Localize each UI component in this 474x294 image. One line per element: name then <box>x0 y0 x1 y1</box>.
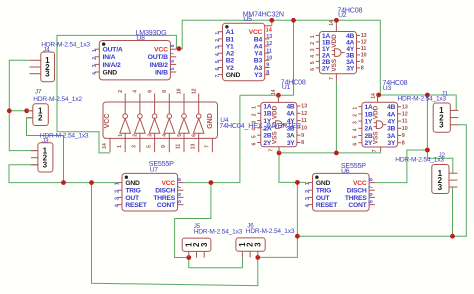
svg-text:6: 6 <box>251 142 257 145</box>
svg-text:1: 1 <box>251 106 257 109</box>
svg-text:9: 9 <box>266 63 269 69</box>
svg-text:13: 13 <box>301 104 307 110</box>
IC U1 74HC08 <box>251 78 307 152</box>
junction <box>334 18 339 23</box>
svg-text:U1: U1 <box>282 84 291 91</box>
svg-text:4B: 4B <box>387 104 395 111</box>
svg-text:6: 6 <box>192 134 198 137</box>
svg-text:13: 13 <box>266 34 272 40</box>
connector J1 <box>398 90 459 132</box>
IC U2 74HC08 <box>310 6 367 81</box>
svg-text:11: 11 <box>301 118 307 124</box>
svg-text:HDR-M-2.54_1x2: HDR-M-2.54_1x2 <box>33 96 82 103</box>
wire <box>9 165 117 183</box>
junction <box>269 18 274 23</box>
svg-text:U6: U6 <box>341 168 350 175</box>
svg-text:4: 4 <box>310 55 316 58</box>
junction <box>376 93 381 98</box>
svg-text:4: 4 <box>133 90 139 93</box>
wire <box>335 20 337 24</box>
svg-text:2: 2 <box>92 57 98 60</box>
svg-text:11: 11 <box>361 46 367 52</box>
svg-text:THRES: THRES <box>345 195 367 202</box>
svg-text:IN/A/2: IN/A/2 <box>103 62 121 69</box>
svg-text:8: 8 <box>361 66 364 72</box>
junction <box>7 108 12 113</box>
svg-text:3Y: 3Y <box>287 140 295 147</box>
svg-text:VCC: VCC <box>161 180 175 187</box>
svg-text:VCC: VCC <box>249 29 263 36</box>
svg-text:5: 5 <box>353 135 359 138</box>
svg-text:2: 2 <box>353 114 359 117</box>
svg-text:3: 3 <box>147 134 153 137</box>
svg-text:OUT: OUT <box>125 195 140 202</box>
wire <box>240 94 294 96</box>
svg-text:1: 1 <box>117 145 123 148</box>
svg-text:VSS: VSS <box>331 58 338 72</box>
svg-text:1: 1 <box>92 49 98 52</box>
wire <box>57 35 176 152</box>
svg-text:8: 8 <box>266 70 269 76</box>
svg-text:8: 8 <box>402 140 405 146</box>
wire <box>271 20 273 26</box>
svg-text:5: 5 <box>177 134 183 137</box>
svg-text:OUT/B: OUT/B <box>148 54 168 61</box>
junction <box>209 180 214 185</box>
svg-text:13: 13 <box>361 33 367 39</box>
svg-text:6: 6 <box>170 60 176 63</box>
svg-text:9: 9 <box>402 133 405 139</box>
svg-text:J3: J3 <box>42 138 49 145</box>
svg-text:U8: U8 <box>136 35 145 42</box>
wire <box>258 182 298 257</box>
svg-text:A2: A2 <box>226 51 235 58</box>
svg-text:IN/B: IN/B <box>155 69 168 76</box>
U5 pin 14 VCC <box>249 26 273 36</box>
svg-text:1: 1 <box>215 32 221 35</box>
svg-text:10: 10 <box>266 56 272 62</box>
svg-text:TRIG: TRIG <box>316 188 331 195</box>
svg-text:HDR-M-2.54_1x3: HDR-M-2.54_1x3 <box>194 228 243 235</box>
svg-text:B4: B4 <box>254 36 263 43</box>
wire <box>175 183 211 258</box>
svg-text:Y2: Y2 <box>226 65 234 72</box>
IC U4 74HC04 hex inverter <box>102 88 301 152</box>
junction <box>89 180 94 185</box>
timer U7 SE555P <box>115 160 184 211</box>
svg-text:7: 7 <box>205 145 211 148</box>
svg-text:GND: GND <box>226 72 241 79</box>
svg-text:HDR-M-2.54_1x3: HDR-M-2.54_1x3 <box>246 228 295 235</box>
wire <box>176 20 380 95</box>
svg-text:74HC04_HEX_INVERTER: 74HC04_HEX_INVERTER <box>219 121 301 130</box>
svg-text:2: 2 <box>118 90 124 93</box>
svg-text:2: 2 <box>38 114 43 123</box>
svg-text:CONT: CONT <box>157 202 176 209</box>
svg-text:8: 8 <box>170 44 176 47</box>
svg-text:5: 5 <box>215 60 221 63</box>
wire <box>189 258 243 268</box>
svg-text:GND: GND <box>207 113 214 129</box>
svg-text:3A: 3A <box>286 133 294 140</box>
svg-text:13: 13 <box>190 144 196 150</box>
svg-text:10: 10 <box>402 126 408 132</box>
svg-text:4: 4 <box>215 53 221 56</box>
connector J6 <box>236 222 295 257</box>
svg-text:B1: B1 <box>226 36 235 43</box>
svg-text:4A: 4A <box>286 111 294 118</box>
svg-text:3: 3 <box>253 242 262 247</box>
svg-text:TRIG: TRIG <box>125 188 140 195</box>
svg-text:8: 8 <box>301 140 304 146</box>
connector J4 <box>30 41 91 81</box>
svg-text:14: 14 <box>266 27 273 33</box>
IC IC U5 MM74HC32N <box>215 11 284 81</box>
svg-text:3: 3 <box>132 145 138 148</box>
junction <box>425 93 430 98</box>
svg-text:12: 12 <box>361 40 367 46</box>
svg-text:9: 9 <box>361 59 364 65</box>
svg-text:4: 4 <box>92 72 98 75</box>
svg-text:7: 7 <box>269 149 275 152</box>
svg-text:2Y: 2Y <box>322 65 330 72</box>
junction <box>24 108 29 113</box>
svg-text:1: 1 <box>310 35 316 38</box>
svg-text:Y3: Y3 <box>254 72 262 79</box>
svg-text:GND: GND <box>125 180 140 187</box>
svg-text:3A: 3A <box>387 133 395 140</box>
svg-text:DISCH: DISCH <box>347 188 367 195</box>
svg-text:11: 11 <box>176 144 182 150</box>
svg-text:OUT: OUT <box>316 195 331 202</box>
timer U6 SE555P <box>305 162 375 211</box>
svg-text:3: 3 <box>353 121 359 124</box>
svg-text:7: 7 <box>372 149 378 152</box>
svg-text:HDR-M-2.54_1x3: HDR-M-2.54_1x3 <box>395 157 444 164</box>
svg-text:VCC: VCC <box>154 47 168 54</box>
svg-text:RESET: RESET <box>316 202 338 209</box>
svg-text:HDR-M-2.54_1x3: HDR-M-2.54_1x3 <box>398 95 447 102</box>
svg-text:2: 2 <box>215 39 221 42</box>
wire <box>427 150 452 173</box>
svg-text:14: 14 <box>271 89 277 95</box>
connector J2 <box>395 152 457 194</box>
svg-text:VDD: VDD <box>331 34 338 48</box>
svg-text:VSS: VSS <box>373 131 380 145</box>
svg-text:IN/A: IN/A <box>103 54 116 61</box>
svg-text:DISCH: DISCH <box>155 188 175 195</box>
svg-text:3: 3 <box>438 183 443 192</box>
svg-text:10: 10 <box>301 126 307 132</box>
svg-text:1: 1 <box>118 134 124 137</box>
wire <box>426 95 428 150</box>
svg-text:RESET: RESET <box>125 202 147 209</box>
svg-text:J7: J7 <box>35 89 42 96</box>
svg-text:VSS: VSS <box>272 131 279 145</box>
svg-text:2: 2 <box>310 42 316 45</box>
svg-text:3: 3 <box>310 48 316 51</box>
junction <box>186 255 191 260</box>
wire <box>297 125 466 236</box>
junction <box>276 93 281 98</box>
svg-text:3: 3 <box>92 64 98 67</box>
svg-text:14: 14 <box>102 143 108 149</box>
svg-text:Y4: Y4 <box>254 51 262 58</box>
svg-text:1B: 1B <box>263 111 271 118</box>
svg-text:6: 6 <box>215 67 221 70</box>
svg-text:OUT/A: OUT/A <box>103 47 123 54</box>
junction <box>277 151 282 156</box>
junction <box>295 234 300 239</box>
svg-text:14: 14 <box>371 93 377 99</box>
svg-text:2: 2 <box>305 190 311 193</box>
svg-text:2B: 2B <box>263 133 271 140</box>
svg-text:4Y: 4Y <box>388 119 396 126</box>
svg-text:A3: A3 <box>254 65 263 72</box>
wire <box>375 150 428 183</box>
svg-text:GND: GND <box>316 180 331 187</box>
wire <box>9 110 33 112</box>
svg-text:6: 6 <box>353 143 359 146</box>
wire <box>293 20 295 95</box>
svg-text:VCC: VCC <box>353 180 367 187</box>
connector J7 <box>27 89 82 126</box>
svg-text:7: 7 <box>329 77 335 80</box>
svg-text:2: 2 <box>115 190 121 193</box>
junction <box>295 180 300 185</box>
svg-text:1A: 1A <box>263 103 271 110</box>
svg-text:11: 11 <box>402 119 408 125</box>
wire <box>335 81 337 153</box>
svg-text:B3: B3 <box>254 58 263 65</box>
wire <box>279 152 381 154</box>
svg-text:VDD: VDD <box>272 105 279 119</box>
svg-text:4B: 4B <box>286 103 294 110</box>
svg-text:12: 12 <box>266 41 272 47</box>
wire <box>380 151 382 153</box>
svg-text:10: 10 <box>177 88 183 94</box>
svg-text:3: 3 <box>215 46 221 49</box>
svg-text:14: 14 <box>329 20 335 26</box>
wire <box>27 118 64 183</box>
junction <box>291 18 296 23</box>
junction <box>177 46 182 51</box>
wire <box>378 95 457 110</box>
svg-text:U7: U7 <box>150 166 159 173</box>
svg-text:6: 6 <box>310 68 316 71</box>
svg-text:IN/B/2: IN/B/2 <box>150 62 168 69</box>
svg-text:7: 7 <box>369 186 375 189</box>
svg-text:9: 9 <box>301 133 304 139</box>
svg-text:VDD: VDD <box>373 105 380 119</box>
svg-text:7: 7 <box>170 52 176 55</box>
junction <box>334 151 339 156</box>
svg-text:1: 1 <box>353 107 359 110</box>
svg-text:5: 5 <box>310 61 316 64</box>
svg-text:9: 9 <box>161 145 167 148</box>
wire <box>92 183 258 286</box>
wire <box>184 95 240 182</box>
svg-text:B2: B2 <box>226 58 235 65</box>
svg-text:2Y: 2Y <box>263 140 271 147</box>
junction <box>61 180 66 185</box>
svg-text:U3: U3 <box>383 85 392 92</box>
svg-text:6: 6 <box>147 90 153 93</box>
svg-text:12: 12 <box>191 88 197 94</box>
svg-text:Y1: Y1 <box>226 43 234 50</box>
wire <box>452 187 454 236</box>
svg-text:GND: GND <box>103 69 118 76</box>
IC U3 74HC08 <box>353 79 408 152</box>
svg-text:A4: A4 <box>254 43 263 50</box>
wire <box>279 153 306 183</box>
svg-text:A1: A1 <box>226 29 235 36</box>
svg-text:2: 2 <box>133 134 139 137</box>
junction <box>425 148 430 153</box>
svg-text:THRES: THRES <box>153 195 175 202</box>
svg-text:10: 10 <box>361 53 367 59</box>
svg-text:8: 8 <box>162 90 168 93</box>
svg-text:11: 11 <box>266 48 272 54</box>
svg-text:VCC: VCC <box>104 114 111 129</box>
svg-text:7: 7 <box>215 74 221 77</box>
svg-text:3B: 3B <box>387 126 395 133</box>
svg-text:J4: J4 <box>43 47 50 54</box>
svg-text:3: 3 <box>43 161 48 170</box>
svg-text:7: 7 <box>177 186 183 189</box>
svg-text:4: 4 <box>162 134 168 137</box>
svg-text:5: 5 <box>170 67 176 70</box>
svg-text:3: 3 <box>200 242 209 247</box>
wire <box>9 60 38 150</box>
IC op-amp U8 LM393DG <box>92 29 176 80</box>
svg-text:3Y: 3Y <box>388 140 396 147</box>
svg-text:4: 4 <box>353 128 359 131</box>
svg-text:4A: 4A <box>387 111 395 118</box>
svg-text:12: 12 <box>402 112 408 118</box>
svg-text:CONT: CONT <box>348 202 367 209</box>
junction <box>255 255 260 260</box>
svg-text:12: 12 <box>301 111 307 117</box>
svg-text:2: 2 <box>251 113 257 116</box>
svg-text:3: 3 <box>45 70 50 79</box>
svg-text:5: 5 <box>146 145 152 148</box>
svg-text:5: 5 <box>251 135 257 138</box>
svg-text:3Y: 3Y <box>346 65 354 72</box>
connector J3 <box>31 133 89 172</box>
svg-text:U5: U5 <box>243 16 252 23</box>
svg-text:13: 13 <box>402 104 408 110</box>
svg-text:3: 3 <box>439 121 444 130</box>
svg-text:U2: U2 <box>338 12 347 19</box>
connector J5 <box>182 223 243 258</box>
junction <box>450 234 455 239</box>
